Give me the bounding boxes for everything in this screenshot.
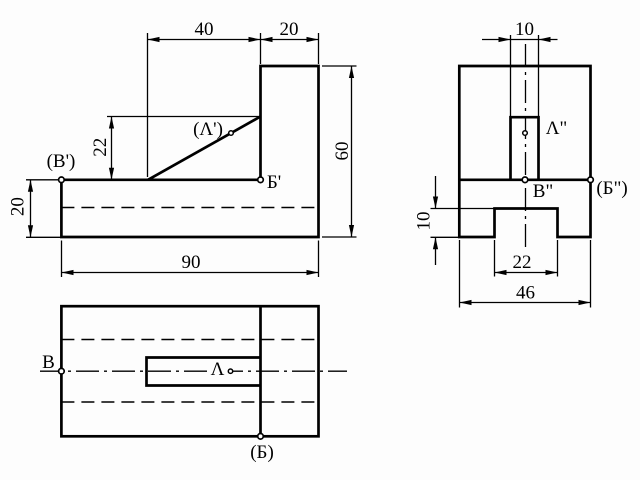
point A' (229, 131, 234, 136)
top view outline (61, 306, 318, 436)
dimension line 10 side lower part (435, 237, 437, 265)
svg-text:20: 20 (280, 19, 299, 40)
extension line 22 side right (557, 240, 559, 277)
point B1'' (588, 177, 594, 183)
extension line 60 top (322, 65, 357, 67)
svg-text:В: В (42, 352, 55, 373)
point B1' (258, 177, 264, 183)
extension line 40 left (147, 33, 149, 177)
front view inclined edge (148, 117, 261, 180)
svg-text:Б': Б' (267, 172, 281, 193)
dimension line 10 side upper part (435, 176, 437, 209)
svg-text:40: 40 (195, 19, 214, 40)
top view hidden line upper (61, 339, 318, 341)
dimension line 20 left (30, 180, 32, 238)
svg-text:В": В" (533, 181, 553, 202)
front view outline (61, 66, 318, 237)
svg-text:60: 60 (332, 142, 353, 161)
extension line 40/20 middle (260, 33, 262, 64)
top view vertical edge (259, 306, 262, 436)
svg-text:10: 10 (413, 212, 434, 231)
dimension line 90 (62, 272, 319, 274)
svg-text:(Б): (Б) (250, 442, 274, 463)
dimension line 22 side (495, 272, 558, 274)
extension line 90 right (318, 241, 320, 278)
side view step edge (459, 178, 590, 181)
extension line 60 bottom (322, 236, 357, 238)
point A (228, 369, 232, 373)
side view outline (459, 66, 590, 237)
extension line 20 left lower (26, 236, 61, 238)
front view hidden line (61, 207, 318, 209)
point B' (59, 177, 65, 183)
svg-text:Λ": Λ" (546, 118, 568, 139)
svg-text:22: 22 (90, 138, 111, 157)
dimension line 20 top (261, 39, 319, 41)
point B (59, 368, 65, 374)
side view center line (525, 44, 527, 251)
svg-text:(Λ'): (Λ') (193, 119, 223, 140)
dimension line 22 (111, 117, 113, 180)
svg-text:20: 20 (7, 197, 28, 216)
extension line 20 right (318, 33, 320, 64)
side view slot (511, 117, 539, 180)
extension line 10 side lower (431, 236, 460, 238)
dimension line 46 (460, 302, 591, 304)
extension line 46 right (590, 240, 592, 308)
extension line 22 side left (494, 240, 496, 277)
svg-text:Λ: Λ (211, 359, 225, 380)
extension line 22 top (107, 116, 261, 118)
svg-text:(В'): (В') (47, 151, 76, 172)
label A backing (208, 359, 228, 374)
extension line 20 left upper (26, 179, 58, 181)
extension line 10 top left (510, 35, 512, 117)
svg-text:(Б"): (Б") (596, 178, 627, 199)
svg-text:22: 22 (513, 252, 532, 273)
point B1 (258, 434, 264, 440)
svg-text:10: 10 (515, 19, 534, 40)
point A'' (523, 131, 528, 136)
top view center line (40, 370, 347, 372)
svg-text:90: 90 (182, 252, 201, 273)
dimension line 10 top (482, 39, 558, 41)
extension line 90 left (61, 241, 63, 278)
extension line 10 side upper (431, 208, 495, 210)
svg-text:46: 46 (516, 283, 535, 304)
top view hidden line lower (61, 401, 318, 403)
top view slot (147, 358, 261, 386)
extension line 10 top right (538, 35, 540, 117)
dimension line 60 (351, 66, 353, 237)
dimension line 40 (148, 39, 261, 41)
point B'' (522, 177, 528, 183)
extension line 46 left (459, 240, 461, 308)
